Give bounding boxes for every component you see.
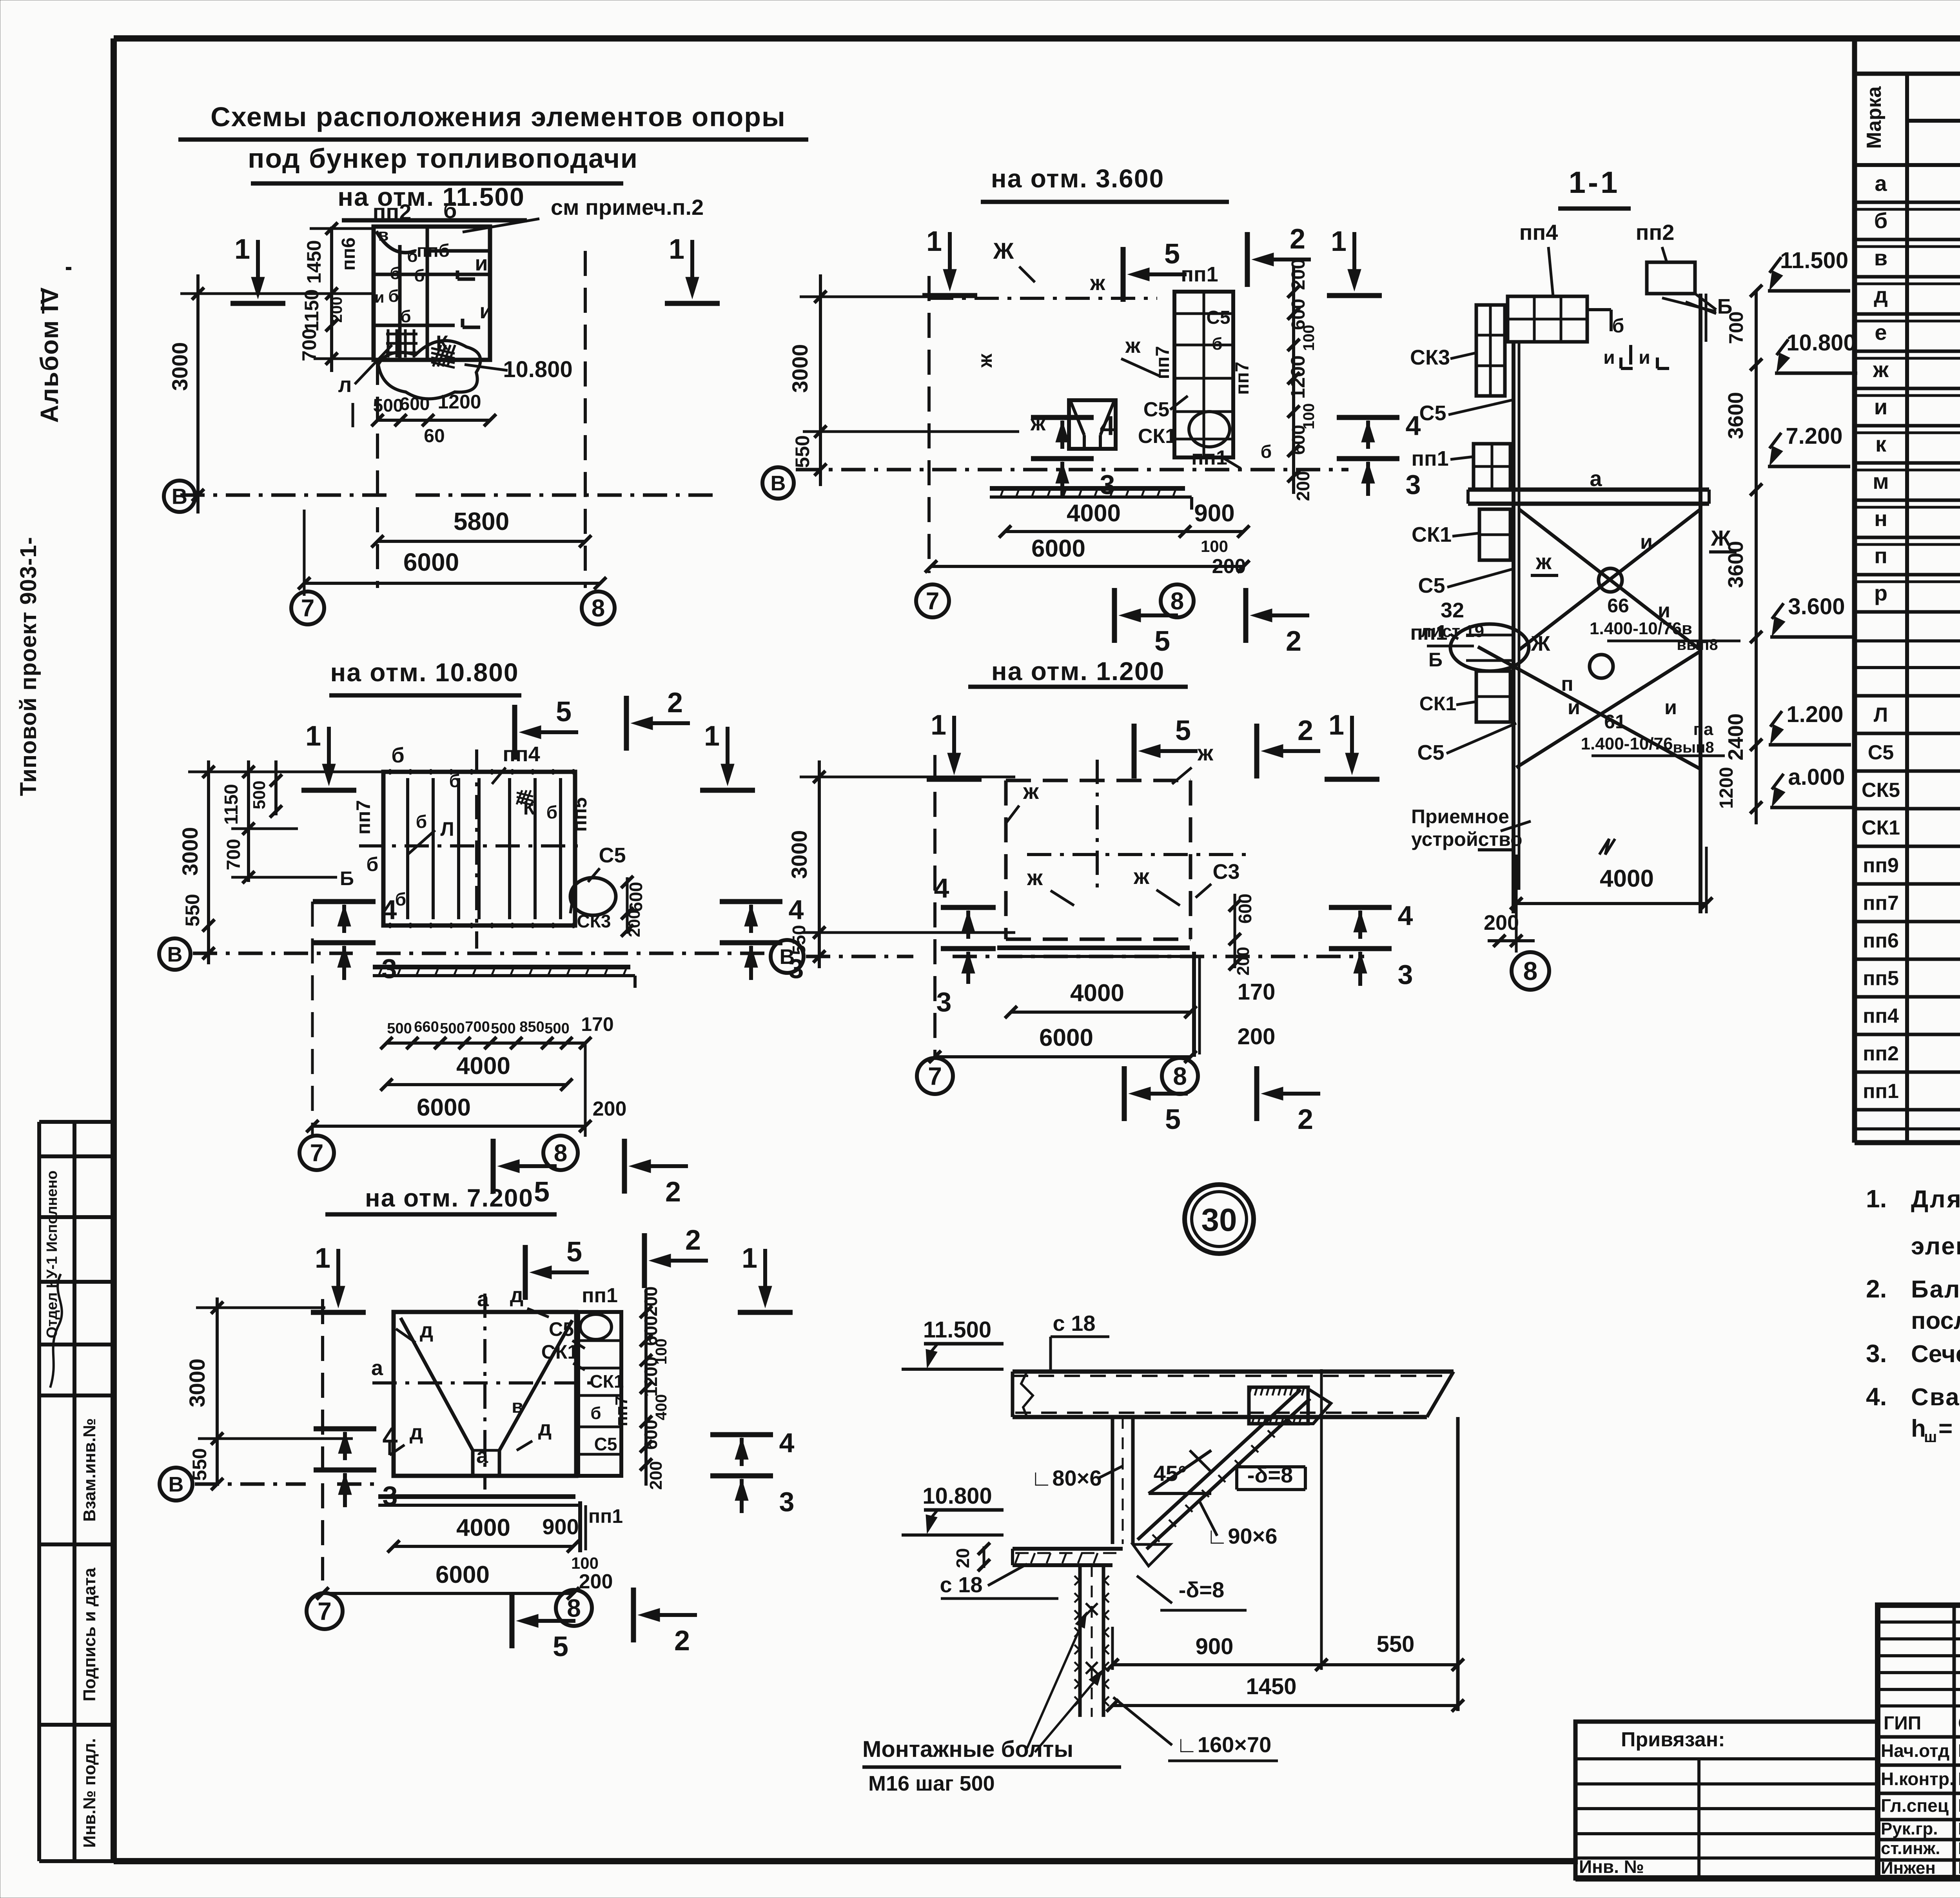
svg-text:пп7: пп7 [352,800,374,835]
section 1-1 grid circle 8 [1512,952,1549,990]
svg-text:С5: С5 [1143,398,1169,421]
view D grid circle 8 [1162,1058,1198,1094]
view B bottom mark 2 [1262,613,1309,617]
section 1-1 dim 200 [1488,939,1535,942]
svg-text:11.500: 11.500 [923,1317,991,1343]
svg-text:500: 500 [373,395,403,416]
sheet frame [114,35,1960,42]
svg-text:4: 4 [383,1422,398,1452]
svg-text:Балку площадки на отм. 11.: Балку площадки на отм. 11.500 монтироват… [1911,1276,1960,1303]
svg-text:1: 1 [315,1243,330,1274]
svg-text:Марков: Марков [1958,1795,1960,1816]
svg-text:пп2: пп2 [1863,1042,1899,1065]
view A stair-like member [387,329,390,357]
view E grid circle 8 [556,1590,592,1626]
svg-text:б: б [443,198,457,223]
svg-text:ж: ж [1027,865,1043,890]
view D grid circle 7 [917,1058,953,1094]
svg-text:100: 100 [571,1554,599,1572]
svg-text:700: 700 [298,328,320,361]
svg-text:пп9: пп9 [1863,854,1899,877]
elevation mark 11.500 [1768,289,1850,293]
svg-text:Катаева: Катаева [1958,1819,1960,1838]
svg-text:1: 1 [742,1243,757,1274]
view B section mark 1 left [948,232,952,279]
svg-text:Привязан:: Привязан: [1621,1728,1725,1751]
svg-text:СК1: СК1 [1419,693,1456,715]
svg-text:6000: 6000 [1039,1024,1093,1051]
svg-text:ст.инж.: ст.инж. [1881,1839,1940,1858]
svg-text:8: 8 [567,1594,581,1622]
view E axes cross [372,1381,600,1384]
svg-text:и: и [475,252,488,275]
svg-text:3: 3 [1398,959,1413,990]
svg-text:Подпись и дата: Подпись и дата [80,1568,99,1701]
svg-text:В: В [172,484,187,509]
svg-text:б: б [407,247,417,266]
svg-text:а: а [371,1356,383,1380]
section 1-1 left blob пп1 [1450,624,1529,671]
section 1-1 dim 4000 [1516,902,1706,905]
elevation mark 0.000 [1770,806,1853,809]
svg-text:2400: 2400 [1724,713,1748,760]
svg-text:∟90×6: ∟90×6 [1207,1524,1278,1548]
svg-text:б: б [390,264,400,283]
svg-text:на отм. 11.500: на отм. 11.500 [338,182,525,211]
svg-text:р: р [1874,581,1887,605]
svg-text:Ж: Ж [993,238,1014,264]
svg-text:Л: Л [1874,704,1888,726]
svg-text:900: 900 [542,1514,579,1539]
detail dim 900 550 [1112,1663,1458,1666]
svg-text:б: б [400,307,411,326]
svg-text:пп1: пп1 [1411,447,1448,470]
detail diagonal brace [1138,1390,1301,1540]
view A dims 500 600 1200 60 [352,403,354,427]
svg-text:8: 8 [1173,1062,1187,1090]
svg-text:Монтажные болты: Монтажные болты [862,1737,1073,1762]
svg-text:1.400-10/76в: 1.400-10/76в [1590,619,1692,638]
svg-text:200: 200 [625,910,643,937]
svg-text:4000: 4000 [1070,980,1124,1007]
view E grid circle 7 [307,1593,343,1629]
svg-text:б: б [449,771,460,791]
svg-text:Ж: Ж [1711,526,1731,550]
svg-text:2: 2 [1298,715,1313,746]
svg-text:пп7: пп7 [612,1396,631,1426]
svg-text:б: б [416,811,427,832]
svg-text:5: 5 [566,1236,582,1268]
view B mark 4/3 left [1031,415,1094,420]
svg-text:6000: 6000 [403,548,459,576]
svg-text:на отм. 3.600: на отм. 3.600 [991,164,1165,193]
elevation mark 3.600 [1770,635,1853,639]
svg-text:1: 1 [234,234,250,265]
view B beam at bottom [990,486,1185,491]
svg-text:С5: С5 [1417,741,1444,764]
svg-text:пп2: пп2 [1636,220,1675,245]
svg-text:1: 1 [704,720,720,752]
svg-text:3000: 3000 [185,1359,209,1408]
view A section mark 1 right [690,240,694,287]
view C bunker plan rectangle [383,772,575,925]
view C beam [373,965,630,969]
view A dim 6000 [304,582,600,585]
svg-text:4000: 4000 [1600,865,1654,892]
svg-text:Ж: Ж [1531,632,1551,655]
svg-text:Для района П4 по ГОСТ 1: Для района П4 по ГОСТ 16350 - 80 марка с… [1911,1186,1960,1213]
view A bunker plan outline [374,227,490,360]
svg-text:м: м [1873,469,1889,494]
section 1-1 пп4 box [1508,296,1587,342]
view D dim 4000 [1011,1011,1191,1014]
view D column axis 7 dashed [933,755,936,1057]
svg-text:д: д [410,1421,423,1444]
svg-text:8: 8 [592,595,605,622]
view B dim 6000 [931,565,1243,568]
svg-text:550: 550 [181,894,203,926]
view C dim 4000 [387,1083,566,1086]
svg-text:б: б [367,853,379,875]
svg-text:Нач.отд: Нач.отд [1881,1740,1949,1761]
section 1-1 пп2 box [1647,262,1695,294]
svg-text:4: 4 [1406,410,1421,441]
detail mid floor [1013,1547,1123,1551]
view C right blob C5 [570,878,616,915]
view C grid circle 7 [299,1136,334,1170]
svg-text:2: 2 [685,1225,701,1256]
section 1-1 СК3 box [1476,305,1505,396]
svg-text:на отм. 7.200: на отм. 7.200 [365,1184,534,1212]
svg-text:е: е [1875,320,1887,345]
svg-text:Б: Б [340,867,354,889]
svg-text:н: н [1874,506,1887,531]
view B bottom mark 5 [1131,613,1178,617]
svg-text:а: а [1875,171,1887,196]
view E mark 4/3 left [314,1426,376,1432]
svg-text:6000: 6000 [417,1094,471,1121]
view C bottom mark 2 [641,1164,688,1168]
svg-text:4: 4 [779,1428,795,1458]
svg-text:пп6: пп6 [338,238,359,271]
view E funnel V lines [401,1318,473,1450]
svg-text:пп1: пп1 [1181,263,1218,286]
elements table header band [1905,74,1909,1143]
svg-text:500: 500 [544,1020,569,1037]
svg-text:3: 3 [1406,469,1421,500]
view B axis В line [796,468,1348,472]
svg-text:п: п [1874,543,1887,568]
view E axis В [160,1468,192,1501]
view A section mark 1 left [256,240,260,287]
svg-text:д: д [420,1319,433,1342]
svg-text:7: 7 [928,1062,942,1090]
svg-text:500: 500 [440,1020,465,1037]
svg-text:3000: 3000 [788,344,812,393]
view A hatch mark К [433,345,441,367]
svg-text:8: 8 [554,1140,567,1167]
svg-text:СК1: СК1 [1862,817,1900,839]
svg-text:200: 200 [646,1461,666,1490]
view D beam [997,945,1190,950]
svg-text:ж: ж [1197,740,1214,765]
svg-text:С5: С5 [1206,307,1230,328]
svg-text:б: б [1212,334,1222,354]
svg-text:СК1: СК1 [1412,523,1452,546]
view D section mark 1 left [952,716,956,763]
section 1-1 bottom column and base [1512,890,1515,913]
view E section mark 1 right [763,1249,767,1296]
svg-text:200: 200 [1238,1024,1276,1049]
svg-text:3600: 3600 [1724,392,1748,439]
detail bolt cross marks [1086,1603,1098,1615]
detail column under slab [1111,1417,1114,1544]
svg-text:ж: ж [1133,864,1150,889]
svg-text:200: 200 [1484,911,1519,934]
svg-text:элементов а, д, е, ж , и, н: элементов а, д, е, ж , и, н ВСт3псб по Т… [1911,1233,1960,1260]
svg-text:ж: ж [1873,357,1889,382]
svg-text:СК1: СК1 [1138,425,1176,448]
svg-text:200: 200 [641,1287,661,1317]
svg-text:пп6: пп6 [1863,929,1899,952]
svg-text:Инв.№ подл.: Инв.№ подл. [80,1738,99,1848]
view D left dim 3000/550 [818,760,821,968]
svg-text:вып8: вып8 [1673,739,1714,756]
detail brace top gusset [1278,1390,1331,1424]
svg-text:на отм. 10.800: на отм. 10.800 [330,658,519,687]
svg-text:32: 32 [1441,599,1464,622]
view E bottom mark 5 [528,1619,575,1623]
view B column axis 7 dashed [927,276,931,573]
svg-text:66: 66 [1607,595,1629,617]
detail node circle 30 [1185,1185,1254,1254]
svg-text:600: 600 [400,394,430,414]
svg-text:ппб: ппб [417,240,450,261]
svg-text:д: д [538,1417,552,1440]
view B dim 4000 [1005,530,1185,533]
svg-text:пп2: пп2 [373,200,412,224]
view B grid circle 8 [1161,584,1194,617]
svg-text:1450: 1450 [1246,1674,1296,1699]
svg-text:45°: 45° [1154,1461,1187,1486]
svg-text:60: 60 [424,426,445,446]
svg-text:Гл.спец: Гл.спец [1881,1795,1949,1816]
svg-text:1.200: 1.200 [1786,702,1843,727]
svg-text:устройство: устройство [1411,828,1523,850]
svg-text:8: 8 [1171,588,1184,615]
view B dim 900 [1185,530,1243,533]
svg-text:ж: ж [974,354,996,368]
view A revision cloud with hatch [378,341,481,399]
svg-text:20: 20 [953,1548,973,1568]
view A column axis dashes [376,360,379,588]
view B upper axis line ж [929,297,1157,300]
svg-text:пп5: пп5 [1863,967,1899,990]
view D section mark 5 [1151,749,1198,753]
svg-text:пп1: пп1 [1863,1080,1899,1103]
svg-text:6000: 6000 [1031,535,1085,562]
svg-text:а: а [477,1287,489,1311]
svg-text:С5: С5 [549,1318,574,1340]
svg-text:4: 4 [382,895,397,925]
svg-text:∟160×70: ∟160×70 [1176,1732,1271,1757]
svg-text:С5: С5 [594,1434,617,1454]
view A grid circle 7 [291,592,324,624]
svg-text:900: 900 [1194,500,1234,527]
svg-text:лист 19: лист 19 [1421,622,1484,641]
svg-text:8: 8 [1523,956,1538,985]
view B dim 3000/550 left [819,274,822,486]
svg-text:Инжен: Инжен [1881,1858,1936,1878]
svg-text:170: 170 [581,1013,613,1035]
detail lower column with bolts [1078,1565,1082,1717]
svg-text:600: 600 [1235,894,1255,924]
view D bottom mark 5 [1141,1092,1188,1096]
view E funnel plan rectangle [394,1312,576,1476]
view A dim 5800 [377,540,585,543]
detail embedded plate with hatch [1249,1387,1308,1424]
section 1-1 left outrigger ПП1 upper [1474,444,1510,490]
svg-text:61: 61 [1604,711,1626,733]
view D mark 4/3 right [1329,905,1392,910]
view A leader 10.800 [465,365,508,370]
svg-text:пп4: пп4 [1519,220,1558,245]
svg-text:3.600: 3.600 [1788,594,1845,619]
elevation mark 1.200 [1769,743,1851,747]
svg-text:6000: 6000 [436,1561,490,1588]
view D section mark 2 [1273,749,1320,753]
title block outer box [1878,1605,1960,1878]
detail gusset at brace foot [1133,1544,1170,1566]
svg-text:и: и [1568,696,1580,719]
view C mark 4/3 right [720,899,782,904]
svg-text:3: 3 [779,1486,795,1517]
view B section mark 5 [1140,272,1187,276]
svg-text:30: 30 [1201,1202,1237,1238]
view C section mark 1 right [726,727,730,774]
svg-text:2: 2 [667,687,683,719]
svg-text:4: 4 [934,873,949,904]
svg-text:1: 1 [931,709,946,741]
view C dim 6000 [312,1125,585,1128]
detail top slab [1013,1370,1454,1374]
svg-text:2: 2 [1298,1104,1313,1135]
svg-text:5: 5 [1165,1104,1181,1135]
svg-text:на отм. 1.200: на отм. 1.200 [991,657,1165,686]
svg-text:Альбом IV: Альбом IV [35,287,64,423]
view B mark 4/3 right [1337,415,1399,420]
view E right dim chain [644,1290,648,1486]
svg-text:5800: 5800 [454,507,509,535]
view E section mark 2 [661,1259,708,1263]
svg-text:СК3: СК3 [577,911,611,931]
svg-text:7: 7 [318,1597,332,1625]
view C dim chain 500..170 [387,1042,585,1045]
svg-text:5: 5 [534,1176,550,1208]
title block left grid [1953,1605,1956,1878]
svg-text:см примеч.п.2: см примеч.п.2 [551,195,704,220]
view C left dim chains [207,760,210,964]
svg-text:4: 4 [1398,900,1413,931]
svg-text:1450: 1450 [303,240,325,283]
svg-text:и: и [1640,531,1653,553]
elements table outer border [1852,38,1857,1143]
section 1-1 break mark [1599,839,1615,855]
svg-text:б: б [546,802,557,822]
svg-text:10.800: 10.800 [922,1483,992,1509]
view B section mark 1 right [1352,232,1356,279]
svg-text:л: л [338,372,352,397]
elevation mark 7.200 [1768,465,1850,468]
svg-text:3000: 3000 [167,342,192,391]
view E section mark 5 [542,1270,589,1274]
svg-text:1-1: 1-1 [1569,165,1620,200]
view D mark 4/3 left [941,905,996,910]
view C mark 4/3 left [313,899,376,904]
svg-text:10.800: 10.800 [503,357,572,382]
view D dim 6000 [935,1055,1191,1058]
view D section mark 1 right [1350,716,1354,763]
svg-text:Приемное: Приемное [1411,806,1509,827]
svg-text:б: б [590,1404,601,1423]
view C section mark 1 left [327,727,331,774]
svg-text:4: 4 [1100,410,1115,441]
svg-text:200: 200 [593,1098,627,1120]
svg-text:2: 2 [674,1625,690,1657]
svg-text:1200: 1200 [1287,355,1309,399]
svg-text:д: д [1874,283,1888,307]
section 1-1 lower X bracing [1478,647,1700,769]
svg-text:1: 1 [1328,709,1344,741]
svg-text:400: 400 [653,1394,670,1421]
svg-text:7.200: 7.200 [1786,423,1842,449]
svg-text:Морунов: Морунов [1958,1740,1960,1761]
svg-text:7: 7 [301,595,314,622]
svg-text:Рук.гр.: Рук.гр. [1881,1819,1938,1838]
svg-text:1200: 1200 [641,1357,661,1397]
view C right dims 600 200 [626,877,629,934]
svg-text:3: 3 [1100,469,1115,500]
section 1-1 top bracket details [1587,308,1611,311]
svg-text:с 18: с 18 [1053,1311,1096,1335]
svg-text:2.: 2. [1866,1275,1887,1303]
svg-text:и: и [375,289,385,306]
svg-text:5: 5 [1175,715,1191,746]
svg-text:после установки подъемника: после установки подъемника. [1911,1307,1960,1334]
svg-text:= 6 мм: = 6 мм [1938,1415,1960,1442]
svg-text:700: 700 [1725,311,1747,344]
svg-text:б: б [1874,208,1888,233]
small table Привязан [1575,1722,1878,1878]
svg-text:СК1: СК1 [590,1371,624,1392]
svg-text:1: 1 [1331,226,1347,257]
svg-text:В: В [771,472,786,495]
svg-text:100: 100 [1201,537,1228,555]
elevation mark 10.800 [1775,372,1857,375]
view D inner axes [1027,853,1247,856]
svg-text:В: В [167,943,183,966]
svg-text:4000: 4000 [456,1052,510,1080]
view A small arc member [376,231,416,252]
view E section mark 1 left [336,1249,340,1296]
svg-text:в: в [1874,245,1887,270]
svg-text:б: б [391,744,404,767]
section 1-1 beam at 7.200 [1468,488,1709,492]
svg-text:с 18: с 18 [940,1572,983,1597]
svg-text:1.: 1. [1866,1185,1887,1213]
svg-text:10.800: 10.800 [1786,330,1856,356]
svg-text:7: 7 [310,1140,323,1167]
